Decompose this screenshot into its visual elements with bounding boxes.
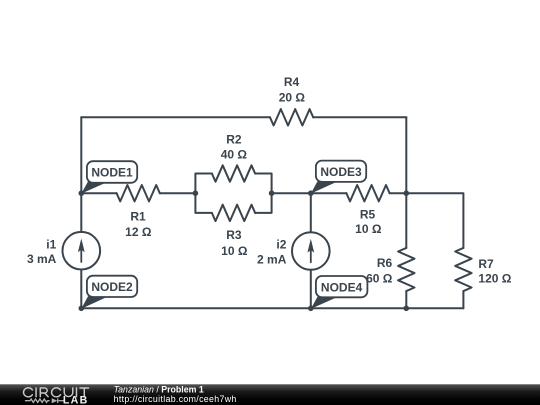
wire parallel-left stub up bbox=[195, 174, 212, 194]
wire right vertical (top to node) bbox=[405, 117, 407, 193]
current source i1 circle bbox=[63, 232, 101, 270]
svg-text:LAB: LAB bbox=[63, 394, 89, 405]
current source i2 circle bbox=[292, 232, 330, 270]
wire NODE1 to i1 top bbox=[80, 193, 82, 232]
svg-text:40 Ω: 40 Ω bbox=[221, 148, 248, 162]
junction dot NODE2 bbox=[79, 306, 85, 312]
wire right node to R7 top bbox=[406, 193, 463, 248]
wire parallel block to NODE3 bbox=[272, 192, 311, 194]
node NODE1 balloon bbox=[87, 161, 137, 183]
svg-text:R6: R6 bbox=[377, 256, 393, 270]
svg-text:20 Ω: 20 Ω bbox=[279, 91, 306, 105]
footer logo resistor-diode symbol bbox=[25, 398, 64, 403]
junction dot NODE1 bbox=[79, 190, 85, 196]
svg-text:3 mA: 3 mA bbox=[27, 252, 57, 266]
resistor R1 bbox=[117, 185, 160, 201]
node NODE3 balloon tail bbox=[311, 181, 338, 193]
svg-text:NODE2: NODE2 bbox=[91, 280, 133, 294]
wire top horizontal right of R4 bbox=[313, 116, 406, 118]
current source i1 arrow shaft bbox=[80, 249, 82, 263]
current source i1 arrowhead bbox=[78, 239, 85, 253]
svg-text:R5: R5 bbox=[360, 208, 376, 222]
wire parallel-left stub down bbox=[195, 193, 212, 213]
wire right node to R6 top bbox=[405, 193, 407, 248]
wire NODE3 to R5 bbox=[311, 192, 347, 194]
wire top horizontal left of R4 bbox=[81, 116, 270, 118]
svg-text:R3: R3 bbox=[226, 228, 242, 242]
resistor R5 bbox=[346, 185, 389, 201]
node NODE4 balloon bbox=[316, 276, 368, 297]
current source i2 arrowhead bbox=[307, 239, 314, 253]
wire parallel-right stub from R3 bbox=[255, 193, 272, 213]
junction dot bottom right bbox=[404, 306, 410, 312]
resistor R2 bbox=[212, 165, 255, 181]
svg-text:NODE4: NODE4 bbox=[321, 280, 363, 294]
current source i2 arrow shaft bbox=[310, 249, 312, 262]
footer logo CIRCUIT lettering bbox=[23, 388, 88, 397]
wire i1 bottom to NODE2 bbox=[80, 270, 82, 309]
junction dot parallel left bbox=[193, 190, 199, 196]
junction dot NODE3 bbox=[308, 190, 314, 196]
svg-text:12 Ω: 12 Ω bbox=[125, 225, 152, 239]
resistor R4 bbox=[270, 109, 313, 125]
svg-text:NODE1: NODE1 bbox=[91, 166, 133, 180]
node NODE1 balloon tail bbox=[81, 182, 108, 194]
wire top-left vertical (NODE1 to top) bbox=[80, 117, 82, 193]
svg-text:http://circuitlab.com/ceeh7wh: http://circuitlab.com/ceeh7wh bbox=[114, 394, 237, 404]
node NODE3 balloon bbox=[316, 161, 366, 182]
wire R7 bottom bbox=[462, 291, 464, 308]
svg-text:R1: R1 bbox=[130, 210, 146, 224]
svg-text:10 Ω: 10 Ω bbox=[355, 222, 382, 236]
node NODE2 balloon bbox=[87, 276, 137, 297]
resistor R7 bbox=[455, 248, 471, 291]
svg-text:2 mA: 2 mA bbox=[257, 252, 287, 266]
resistor R3 bbox=[212, 205, 255, 221]
footer bar background bbox=[0, 384, 540, 405]
footer logo diode triangle bbox=[52, 398, 58, 403]
resistor R6 bbox=[398, 248, 414, 291]
svg-text:i2: i2 bbox=[276, 237, 286, 251]
svg-text:NODE3: NODE3 bbox=[320, 165, 362, 179]
junction dot right node bbox=[404, 190, 410, 196]
svg-text:R7: R7 bbox=[478, 257, 494, 271]
wire i2 bottom to NODE4 bbox=[310, 270, 312, 309]
node NODE4 balloon tail bbox=[311, 297, 338, 309]
wire parallel-right stub from R2 bbox=[255, 174, 272, 194]
svg-text:120 Ω: 120 Ω bbox=[478, 272, 511, 286]
svg-text:R4: R4 bbox=[284, 75, 300, 89]
wire NODE3 to i2 top bbox=[310, 193, 312, 232]
wire R5 to right node bbox=[390, 192, 407, 194]
svg-text:10 Ω: 10 Ω bbox=[221, 244, 248, 258]
wire bottom horizontal bbox=[81, 307, 463, 309]
svg-text:60 Ω: 60 Ω bbox=[366, 271, 393, 285]
junction dot parallel right bbox=[269, 190, 275, 196]
svg-text:R2: R2 bbox=[226, 133, 242, 147]
junction dot NODE4 bbox=[308, 306, 314, 312]
node NODE2 balloon tail bbox=[81, 296, 108, 308]
wire R6 bottom bbox=[405, 291, 407, 308]
wire NODE1 to R1 bbox=[81, 192, 116, 194]
svg-text:i1: i1 bbox=[46, 237, 56, 251]
wire R1 to parallel block bbox=[160, 192, 196, 194]
